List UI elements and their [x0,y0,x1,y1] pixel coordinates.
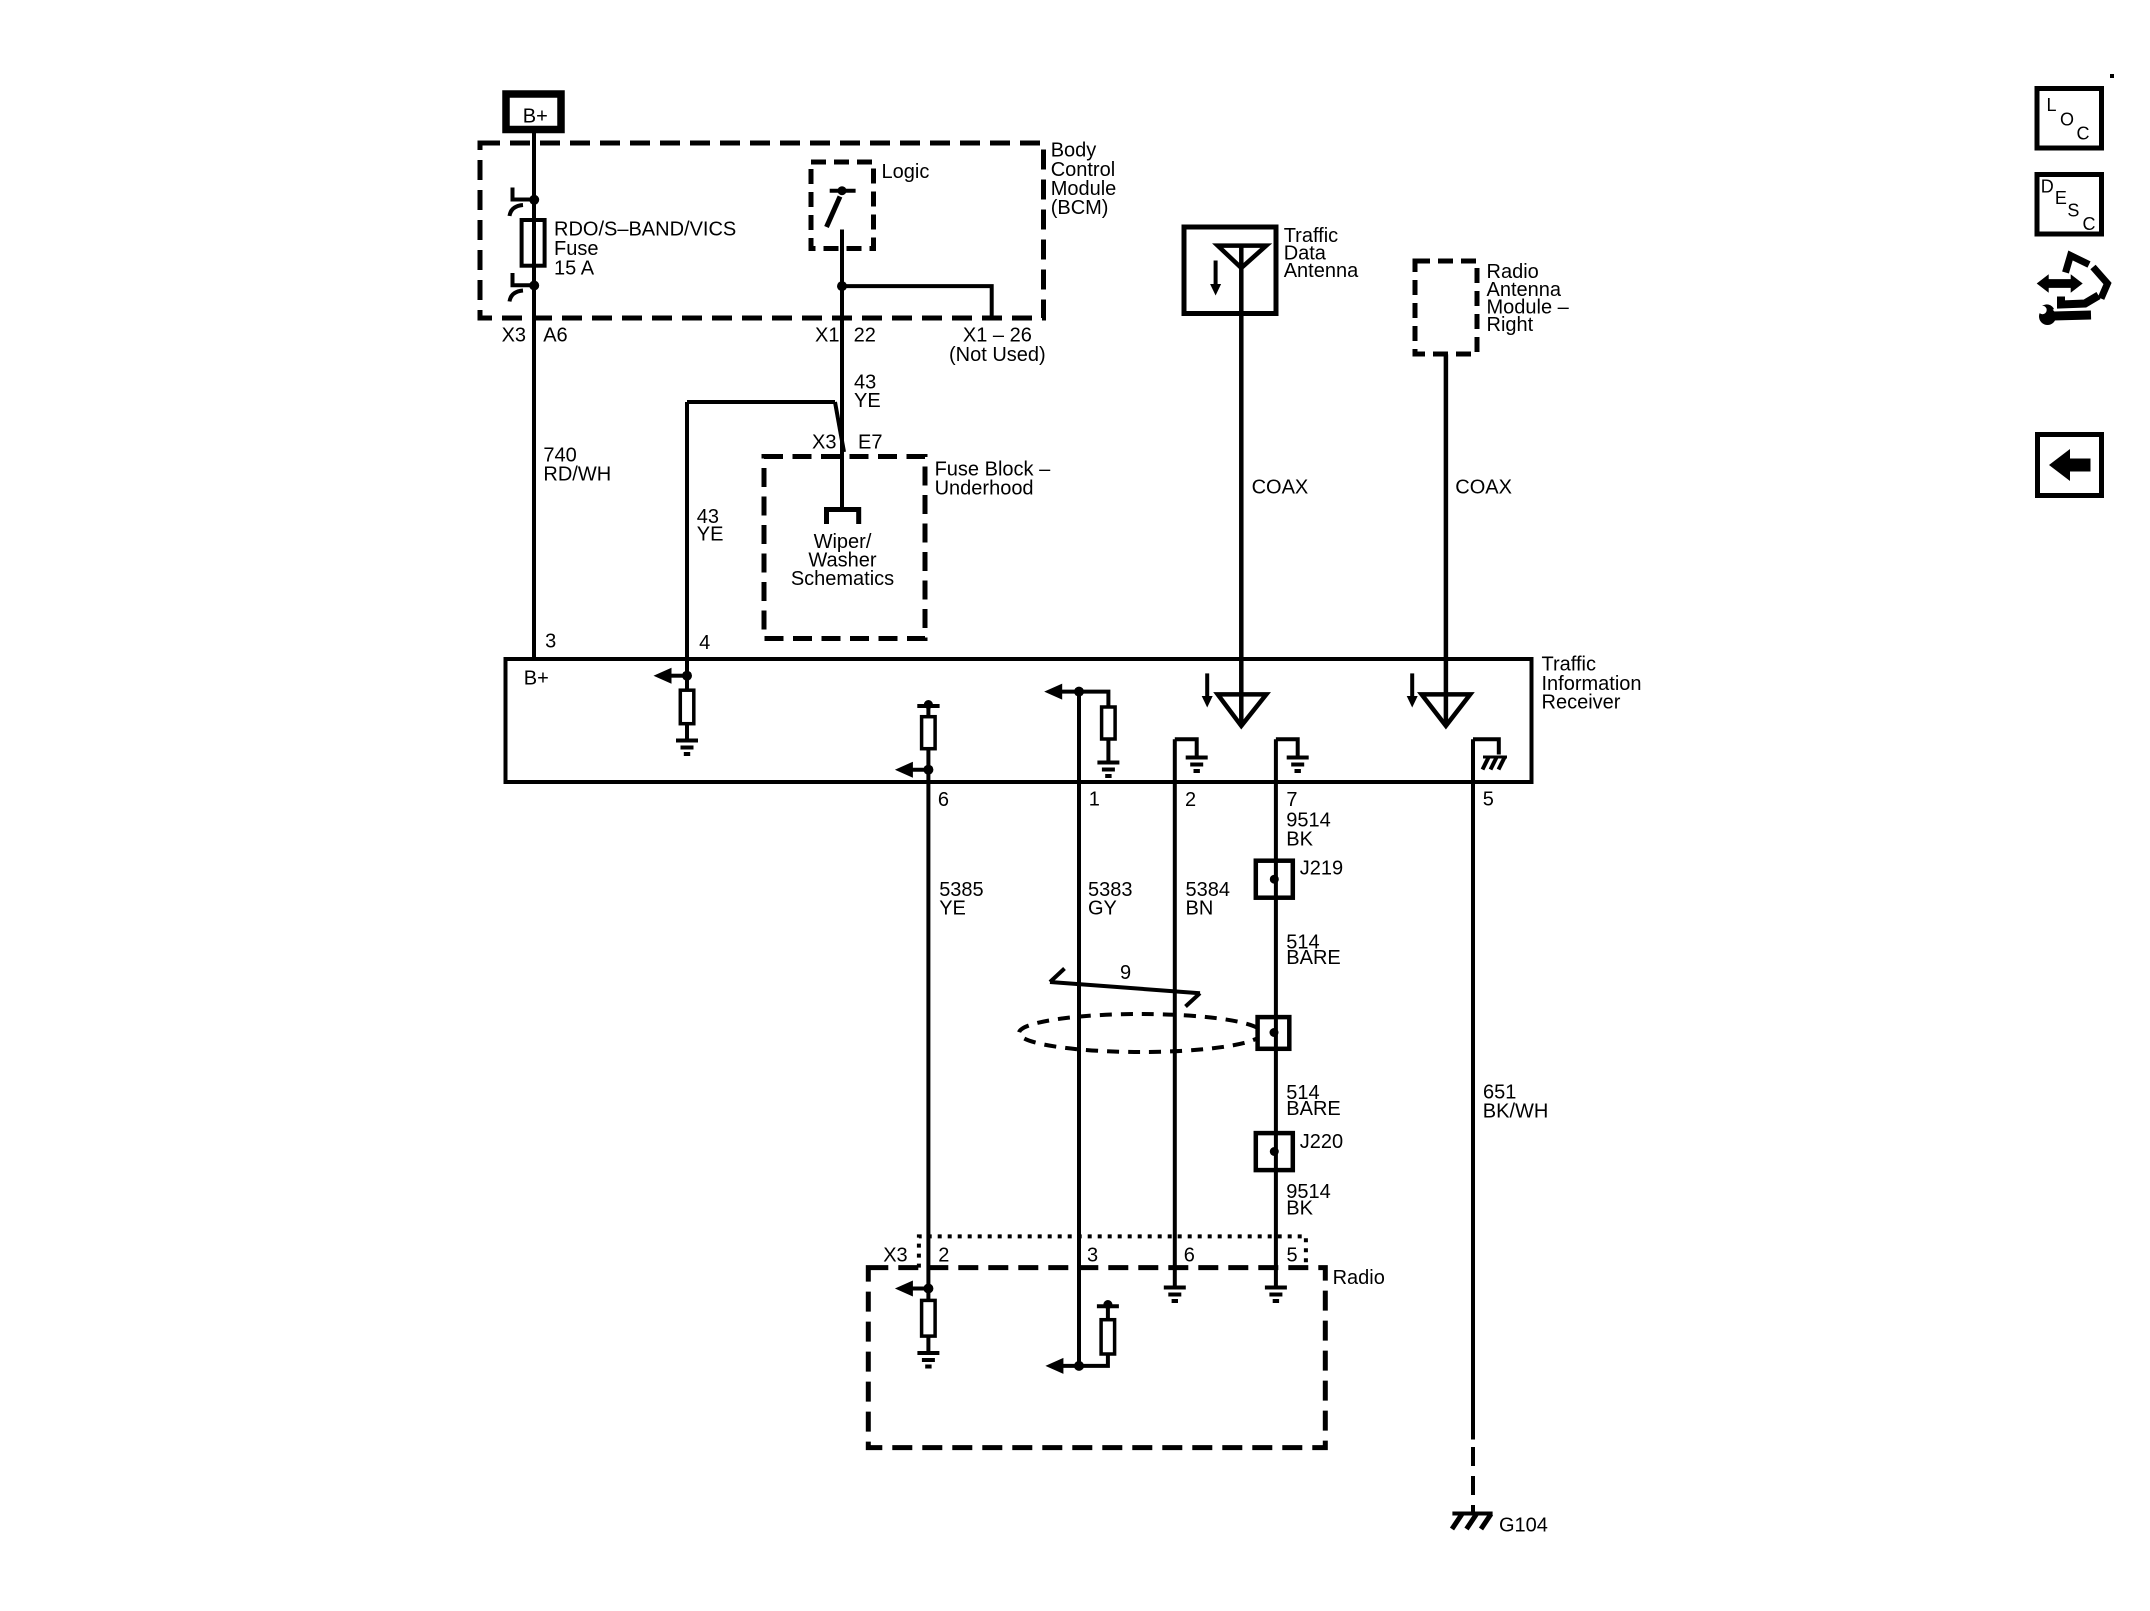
label Radio Antenna Module - Right [1487,261,1570,336]
svg-text:Underhood: Underhood [935,478,1034,500]
icon DESC box [2037,175,2102,235]
receiver pin 2 ground hook [1175,739,1197,756]
receiver pin 1 ground [1097,763,1119,777]
label fuse value [554,218,736,279]
receiver pin 7 ground hook [1276,739,1298,756]
splice J220 box [1256,1133,1293,1170]
svg-text:BN: BN [1186,898,1214,920]
wire COAX traffic antenna [1239,246,1244,725]
svg-text:2: 2 [938,1245,949,1267]
radio pin 2 resistor [922,1300,936,1336]
radio pin 3 branch wire [1079,1308,1108,1366]
svg-text:J219: J219 [1300,858,1343,880]
wire 5385 YE receiver pin 6 to radio pin 2 [926,706,930,1353]
B+ power symbol box [506,94,561,130]
svg-text:6: 6 [938,789,949,811]
svg-text:Fuse: Fuse [554,238,598,260]
svg-text:YE: YE [697,524,724,546]
wire 43 YE down to receiver pin 4 [685,402,689,690]
wire jog at X3 E7 [835,402,844,452]
svg-text:(Not Used): (Not Used) [949,344,1046,366]
fuse clip top [510,188,540,217]
Radio X3 connector dotted strip [919,1236,1306,1267]
svg-text:Radio: Radio [1333,1267,1385,1289]
wire 651 BK/WH receiver pin 5 [1471,739,1475,1439]
icon LOC box [2037,89,2102,149]
wire 651 BK/WH dashed segment to G104 [1471,1447,1475,1513]
receiver pin 1 branch wire [1079,692,1108,707]
wiper/washer connector symbol [827,510,859,525]
label wire 9514 BK lower [1286,1181,1331,1220]
svg-text:E7: E7 [858,432,882,454]
wire 9514 BK / 514 BARE receiver pin 7 to radio pin 5 [1274,739,1278,1287]
receiver pin 7 ground [1287,758,1309,772]
receiver pin 2 ground [1186,758,1208,772]
svg-text:BARE: BARE [1286,947,1340,969]
shield dashed ellipse [1019,1014,1262,1052]
svg-text:22: 22 [854,325,876,347]
receiver pin 1 resistor lower wire [1106,739,1110,762]
svg-text:L: L [2047,95,2057,115]
radio pin 6 ground [1164,1288,1186,1302]
svg-text:BARE: BARE [1286,1098,1340,1120]
wire COAX radio antenna [1444,354,1449,725]
wire 5384 BN receiver pin 2 to radio pin 6 [1173,739,1177,1287]
svg-text:X3: X3 [502,325,526,347]
splice J220 node [1270,1147,1279,1156]
label X1 - 26 (Not Used) [949,325,1046,366]
svg-text:C: C [2083,214,2096,234]
svg-text:6: 6 [1184,1245,1195,1267]
label wire 5383 GY [1088,879,1133,920]
radio pin 5 ground [1265,1288,1287,1302]
label wire 514 BARE lower [1286,1082,1340,1120]
svg-text:Logic: Logic [882,161,930,183]
radio pin 2 node and arrow [895,1281,934,1297]
wire 740 RD/WH from B+ to receiver pin 3 [532,133,536,659]
svg-text:Right: Right [1487,314,1534,336]
svg-text:B+: B+ [524,668,549,690]
radio pin 3 termination bar [1097,1300,1119,1309]
svg-text:BK/WH: BK/WH [1483,1101,1549,1123]
receiver pin 4 resistor lower wire [685,724,689,741]
receiver pin 5 chassis ground [1483,757,1508,770]
receiver pin 4 resistor [680,690,694,724]
svg-text:X1: X1 [815,325,839,347]
label pin X3 E7 [812,432,882,454]
label wire 5385 YE [939,879,984,920]
wire logic switch to fuse block (43 YE) [840,230,844,508]
svg-text:COAX: COAX [1455,477,1512,499]
radio pin 3 node and arrow [1045,1358,1084,1374]
svg-text:YE: YE [854,390,881,412]
svg-text:COAX: COAX [1252,477,1309,499]
Traffic Information Receiver box [506,659,1532,782]
stray dot [2110,74,2114,78]
radio pin 3 resistor [1101,1320,1115,1354]
svg-text:3: 3 [1087,1245,1098,1267]
svg-text:Schematics: Schematics [791,568,894,590]
svg-text:GY: GY [1088,898,1117,920]
traffic data antenna symbol [1210,246,1266,296]
label wire 9514 BK upper [1286,810,1331,851]
Radio Antenna Module - Right dashed box [1415,261,1477,354]
svg-text:Antenna: Antenna [1284,260,1359,282]
svg-text:E: E [2055,188,2067,208]
label wire 43 YE lower [697,506,724,546]
svg-text:O: O [2060,109,2074,129]
label wire 43 YE upper [854,372,881,413]
svg-text:7: 7 [1286,789,1297,811]
wire 5383 GY receiver pin 1 to radio pin 3 [1077,692,1081,1366]
label Body Control Module (BCM) [1051,140,1117,220]
svg-text:C: C [2077,124,2090,144]
Body Control Module (BCM) dashed box [480,143,1044,318]
receiver pin 6 termination bar [917,700,939,709]
wire 43 YE horizontal branch [687,400,835,404]
label Wiper/Washer Schematics [791,531,894,590]
splice J219 box [1256,861,1293,898]
svg-text:B+: B+ [523,105,548,127]
svg-text:RDO/S–BAND/VICS: RDO/S–BAND/VICS [554,218,736,240]
receiver pin 1 resistor [1102,707,1116,739]
svg-text:1: 1 [1089,789,1100,811]
wire X1-26 branch [842,286,992,315]
svg-text:5: 5 [1483,789,1494,811]
svg-text:9: 9 [1120,962,1131,984]
receiver pin 6 node and arrow [895,762,934,778]
receiver antenna input symbol right [1407,673,1471,725]
label Traffic Data Antenna [1284,225,1359,282]
Logic dashed box [811,162,874,249]
icon reroute arrow with wrench [2037,256,2108,326]
svg-text:BK: BK [1286,829,1313,851]
svg-text:X3: X3 [812,432,836,454]
svg-text:Receiver: Receiver [1542,692,1621,714]
Radio dashed box [868,1268,1325,1448]
radio pin 2 ground [917,1353,939,1367]
fuse clip bottom [510,273,540,302]
fuse RDO/S-BAND/VICS 15 A [522,220,545,266]
svg-text:BK: BK [1286,1198,1313,1220]
label pin X1 22 [815,325,876,347]
svg-text:15 A: 15 A [554,258,595,280]
label pin X3 A6 [502,325,568,347]
svg-text:X3: X3 [883,1245,907,1267]
label wire 514 BARE upper [1286,932,1340,970]
receiver antenna input symbol left [1202,673,1267,725]
shield splice node [1270,1028,1279,1037]
Traffic Data Antenna box [1184,227,1276,314]
receiver pin 1 node and arrow [1044,684,1084,700]
svg-text:D: D [2041,176,2054,196]
ground G104 symbol [1452,1514,1493,1530]
svg-text:5: 5 [1287,1245,1298,1267]
receiver pin 6 resistor [922,717,936,749]
Fuse Block - Underhood dashed box [764,457,925,639]
svg-text:4: 4 [699,632,710,654]
svg-text:A6: A6 [543,325,567,347]
svg-text:G104: G104 [1499,1515,1548,1537]
svg-text:S: S [2067,201,2079,221]
receiver pin 4 node and arrow [654,668,693,684]
receiver pin 4 ground [676,741,698,755]
svg-text:J220: J220 [1300,1131,1343,1153]
svg-text:YE: YE [939,898,966,920]
svg-text:(BCM): (BCM) [1051,197,1109,219]
label wire 740 RD/WH [543,444,611,485]
junction node at X1-26 branch [837,281,847,291]
shield splice box [1258,1017,1290,1049]
svg-text:RD/WH: RD/WH [543,464,611,486]
twisted pair symbol 9 [1050,969,1200,1007]
label Traffic Information Receiver [1542,654,1642,714]
receiver pin 5 chassis ground hook [1473,739,1499,754]
svg-text:2: 2 [1185,789,1196,811]
label wire 5384 BN [1186,879,1231,920]
label Fuse Block - Underhood [935,458,1051,499]
splice J219 node [1270,875,1279,884]
label wire 651 BK/WH [1483,1082,1549,1123]
svg-text:3: 3 [545,630,556,652]
switch symbol in Logic box [827,186,856,227]
icon back arrow box [2038,435,2102,496]
